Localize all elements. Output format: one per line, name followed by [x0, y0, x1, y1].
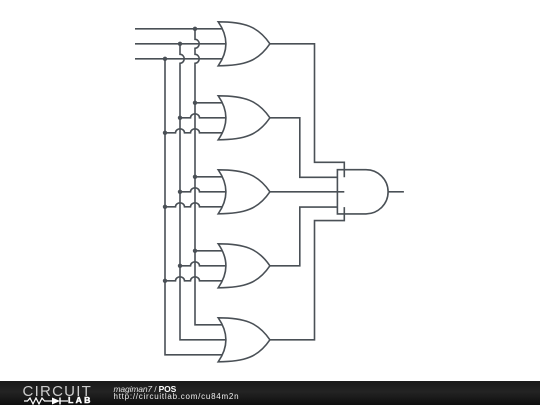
wire gate2 input stub row3: [165, 129, 228, 133]
node junction line B / bus B: [178, 42, 182, 46]
wire gate3 input stub row1: [195, 176, 228, 178]
wire gate3 input stub row2: [180, 188, 228, 192]
footer url line: [114, 392, 240, 401]
node junction line C / bus C: [163, 57, 167, 61]
node junction bus B gate3: [178, 190, 182, 194]
logo schematic squiggle: [22, 397, 94, 405]
or-gate U3: [218, 170, 270, 214]
logo CIRCUIT text: [23, 383, 93, 400]
wire bus A vertical: [195, 29, 228, 325]
node junction bus A gate4: [193, 249, 197, 253]
wire input line C: [135, 58, 228, 60]
or-gate U5: [218, 318, 270, 362]
wire gate2 input stub row2: [180, 114, 228, 118]
node junction bus B gate2: [178, 116, 182, 120]
wire OR4 output to AND pin4: [270, 207, 338, 266]
node junction bus B gate4: [178, 264, 182, 268]
wire bus B vertical: [180, 44, 228, 340]
node junction bus A gate2: [193, 101, 197, 105]
node junction bus A gate3: [193, 175, 197, 179]
logo LAB text: [68, 395, 93, 405]
wire gate4 input stub row2: [180, 262, 228, 266]
node junction bus C gate2: [163, 131, 167, 135]
footer bar: [0, 381, 540, 405]
wire input line A: [135, 28, 228, 30]
wire gate4 input stub row1: [195, 250, 228, 252]
or-gate U1: [218, 22, 270, 66]
or-gate U4: [218, 244, 270, 288]
node junction line A / bus A: [193, 27, 197, 31]
or-gate U2: [218, 96, 270, 140]
node junction bus C gate4: [163, 279, 167, 283]
wire AND output stub: [388, 191, 404, 193]
wire gate2 input stub row1: [195, 102, 228, 104]
node junction bus C gate3: [163, 205, 167, 209]
wire OR3 output to AND pin3: [270, 191, 344, 193]
wire OR2 output to AND pin2: [270, 118, 338, 178]
wire gate3 input stub row3: [165, 203, 228, 207]
wire OR5 output to AND pin5: [270, 207, 344, 340]
and-gate U6: [337, 170, 388, 214]
footer author line: [114, 384, 177, 394]
wire bus C vertical: [165, 59, 228, 355]
wire OR1 output to AND pin1: [270, 44, 344, 178]
wire input line B: [135, 43, 228, 45]
wire gate4 input stub row3: [165, 277, 228, 281]
